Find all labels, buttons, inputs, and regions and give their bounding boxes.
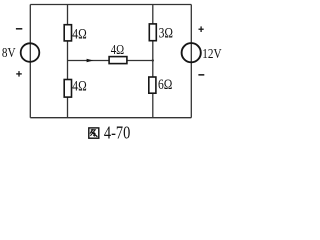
wire: right branch through V2 xyxy=(190,5,192,118)
polarity - (V2 bottom) xyxy=(198,74,204,76)
resistor R3 4Ω horizontal xyxy=(109,57,127,64)
svg-text:4Ω: 4Ω xyxy=(72,77,87,94)
wire: middle-left branch xyxy=(67,5,69,118)
svg-text:8V: 8V xyxy=(2,45,16,60)
resistor R1 4Ω upper left xyxy=(64,25,71,41)
current arrow xyxy=(87,59,94,63)
svg-text:4-70: 4-70 xyxy=(104,122,130,143)
polarity + (V2 top) xyxy=(199,26,204,32)
hanzi 图 (drawn) xyxy=(89,128,99,138)
node: junction of middle branch and right branch xyxy=(152,59,154,61)
wire: middle-right branch xyxy=(152,5,154,118)
svg-text:6Ω: 6Ω xyxy=(158,76,173,93)
wire: left branch through V1 xyxy=(29,5,31,118)
wire: bottom bus xyxy=(30,117,191,119)
caption 图 4-70 xyxy=(89,122,130,143)
svg-text:4Ω: 4Ω xyxy=(72,25,87,42)
voltage source V1 8V xyxy=(21,43,40,62)
resistor R5 6Ω xyxy=(149,77,156,93)
wire: top bus xyxy=(30,4,191,6)
wire: middle horizontal branch xyxy=(68,60,153,62)
polarity - (V1 top) xyxy=(16,28,22,30)
voltage source V2 12V xyxy=(182,43,201,62)
svg-text:4Ω: 4Ω xyxy=(111,42,124,57)
resistor R2 4Ω lower left xyxy=(64,80,71,98)
svg-text:12V: 12V xyxy=(202,46,221,61)
polarity + (V1 bottom) xyxy=(16,71,22,77)
resistor R4 3Ω xyxy=(149,24,156,41)
svg-text:3Ω: 3Ω xyxy=(159,24,174,41)
